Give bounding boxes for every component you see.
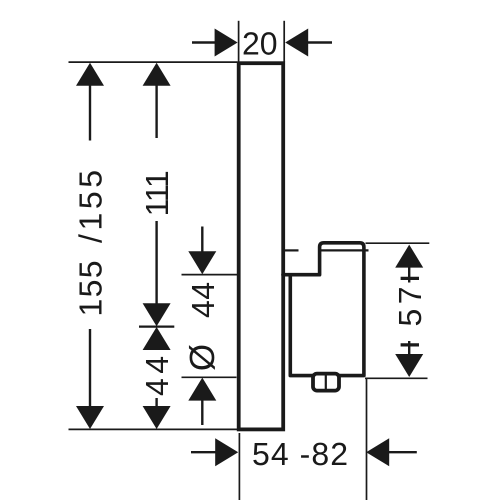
dim 20 right arrow	[285, 29, 332, 57]
handle chamfer line stub (left of grip)	[283, 249, 299, 251]
handle profile (knob + sleeve)	[283, 243, 364, 376]
dim 57 upper break dash	[401, 277, 419, 280]
clip tab divider	[325, 375, 327, 390]
dim 57 lower arrow	[395, 341, 423, 377]
extension line lower (diameter 44 dim)	[182, 376, 237, 378]
dim 44 lower arrow	[143, 398, 171, 429]
dim diameter-44 lower arrow with tail below	[188, 378, 216, 425]
svg-text:20: 20	[242, 26, 278, 62]
svg-text:155: 155	[73, 261, 109, 317]
extension line top horizontal (155/111 dims)	[69, 61, 238, 63]
dim 20 left arrow	[192, 29, 238, 57]
extension line vertical right (54-82 dim)	[366, 379, 368, 500]
svg-text:Ø: Ø	[183, 344, 222, 371]
dim 44 upper arrow	[143, 327, 171, 350]
clip tab at handle bottom	[313, 374, 339, 391]
svg-text:44: 44	[185, 282, 221, 318]
dim 111 upper arrow	[143, 63, 171, 138]
extension line upper (diameter 44 dim)	[182, 274, 238, 276]
svg-text:54 -82: 54 -82	[252, 436, 348, 472]
extension line bottom right (57 dim)	[365, 377, 428, 379]
dim 57 lower break dash	[401, 343, 419, 346]
dim 57 upper arrow	[395, 245, 423, 283]
extension line vertical right (20 dim)	[283, 21, 285, 62]
dim 155 line lower arrow	[76, 329, 104, 429]
extension line top right (57 dim)	[366, 242, 430, 244]
svg-text:111: 111	[139, 170, 175, 216]
dim 111 lower arrow	[143, 221, 171, 326]
dim 54-82 left arrow	[191, 438, 238, 466]
dim 155 line upper arrow	[76, 63, 104, 141]
dim 54-82 right arrow	[366, 438, 417, 466]
dim diameter-44 upper arrow with tail above	[188, 227, 216, 275]
plate (mounting plate side view)	[239, 63, 284, 429]
dim 44 junction tick	[139, 326, 174, 328]
extension line vertical left (54-82 dim)	[238, 433, 240, 500]
extension line bottom horizontal (155/44 dims)	[69, 428, 238, 430]
extension line vertical left (20 dim)	[238, 21, 240, 62]
handle chamfer line (inner detail, grip)	[318, 249, 369, 251]
